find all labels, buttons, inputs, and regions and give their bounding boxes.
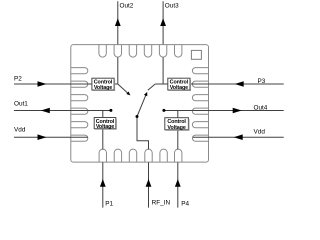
pin notch top 1 (99, 45, 106, 58)
arrow Out1 (41, 108, 50, 114)
control voltage box U4 (bottom-right) (165, 118, 189, 131)
pin notch bottom 1 (P1) (99, 149, 106, 162)
control voltage box U1 (top-left) (92, 78, 115, 91)
pin stub right 2 (P3) (192, 81, 208, 87)
pin stub right 6 (Vdd) (192, 135, 208, 141)
pin notch top 2 (114, 45, 121, 58)
pin stub left 5 (71, 122, 88, 128)
arrow Vdd right (234, 134, 243, 140)
arrow P1 (100, 179, 106, 187)
pin notch top 3 (129, 45, 136, 58)
pin stub right 1 (192, 68, 208, 74)
pin notch top 5 (159, 45, 166, 58)
switch throw contact S3 (148, 84, 155, 90)
svg-text:Voltage: Voltage (170, 85, 188, 91)
svg-text:Out1: Out1 (14, 101, 28, 108)
wire U1 box to node (114, 83, 118, 85)
pin stub left 1 (71, 68, 88, 74)
arrow P3 (235, 81, 244, 87)
wire Out1 lead (14, 110, 110, 112)
pin stub left 6 (Vdd) (71, 135, 88, 141)
wire P3 lead (190, 83, 284, 85)
wire RF_IN route (137, 117, 149, 208)
arrow P2 (38, 81, 47, 87)
svg-text:RF_IN: RF_IN (152, 199, 171, 206)
arrow Out2 (115, 18, 121, 26)
node dot Out1 throw (109, 109, 112, 112)
wire Out2 vertical (117, 1, 119, 84)
pin stub right 4 (Out4) (192, 108, 208, 114)
wire Out4 lead (165, 110, 284, 112)
arrow Out4 (233, 108, 242, 114)
pin stub right 5 (192, 122, 208, 128)
pin stub right 3 (192, 95, 208, 101)
node dot S3 pivot (136, 115, 139, 118)
control voltage box U3 (bottom-left) (94, 118, 116, 131)
svg-text:Voltage: Voltage (94, 85, 112, 91)
svg-text:Voltage: Voltage (167, 125, 185, 131)
pin notch bottom 5 (160, 149, 167, 162)
svg-text:Vdd: Vdd (254, 129, 266, 136)
pin stub left 3 (71, 95, 88, 101)
pin notch top 6 (175, 45, 182, 58)
arrow P4 (175, 179, 181, 187)
wire Out3 node to U2 box (155, 83, 168, 85)
wire P4 riser (177, 111, 179, 118)
pin stub left 4 (Out1) (71, 108, 88, 114)
wire P1 riser (102, 111, 104, 118)
arrow RF_IN (146, 179, 152, 187)
svg-text:Vdd: Vdd (14, 127, 26, 134)
svg-text:Out2: Out2 (120, 3, 134, 10)
arrow Vdd left (38, 134, 47, 140)
pin notch bottom 2 (114, 149, 121, 162)
pin notch bottom 4 (RF_IN) (145, 149, 152, 162)
svg-text:P3: P3 (258, 78, 266, 85)
node dot Out4 throw (162, 109, 165, 112)
arrowhead switch arm S1 (126, 92, 130, 96)
switch arm S1 (118, 84, 128, 93)
pin notch top 4 (144, 45, 151, 57)
arrow Out3 (160, 18, 166, 26)
arrowhead switch arm S3 (144, 92, 147, 96)
svg-text:Out3: Out3 (165, 3, 179, 10)
pin 1 marker square (191, 50, 201, 59)
wire Out3 vertical (162, 1, 164, 84)
wire P4 lead (177, 130, 179, 208)
pin notch bottom 3 (129, 149, 136, 162)
svg-text:Out4: Out4 (254, 104, 268, 111)
svg-text:Voltage: Voltage (96, 124, 114, 130)
svg-text:P2: P2 (14, 76, 22, 83)
wire P1 lead (102, 129, 104, 208)
switch arm S3 pole (137, 95, 146, 116)
control voltage box U2 (top-right) (168, 78, 191, 91)
pin notch bottom 6 (P4) (175, 149, 182, 162)
svg-text:P4: P4 (181, 200, 189, 207)
chip package body U1 (71, 45, 209, 163)
pin stub left 2 (P2) (71, 81, 88, 87)
wire Vdd right lead (193, 136, 284, 138)
svg-text:P1: P1 (105, 200, 113, 207)
wire P2 lead (14, 83, 92, 85)
wire Vdd left lead (14, 136, 88, 138)
